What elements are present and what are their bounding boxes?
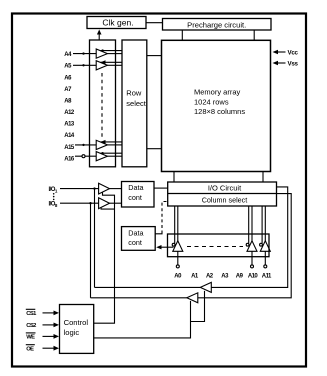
wire CS2 arrow <box>43 324 56 326</box>
read path I/O8 vertical <box>90 203 92 298</box>
svg-text:A16: A16 <box>64 157 75 163</box>
buffer A10 <box>247 241 257 252</box>
column address buffer box <box>168 234 270 257</box>
svg-text:Data: Data <box>128 229 143 238</box>
svg-text:I/O Circuit: I/O Circuit <box>208 184 242 193</box>
buffer A0 <box>173 241 183 252</box>
svg-text:cont: cont <box>128 238 142 247</box>
svg-text:Clk gen.: Clk gen. <box>102 18 133 28</box>
svg-text:select: select <box>126 99 147 108</box>
svg-text:CS2: CS2 <box>26 323 36 329</box>
buffer A5 <box>96 61 107 70</box>
row select box <box>122 40 147 167</box>
svg-text:OE: OE <box>26 347 34 353</box>
svg-text:Vss: Vss <box>288 60 299 67</box>
wire precharge to memory right <box>253 30 255 40</box>
wire A4 input <box>73 53 96 55</box>
dashed line hidden row buffers <box>101 73 103 138</box>
row address buffer box <box>90 40 116 167</box>
Vcc supply arrow <box>275 51 286 53</box>
svg-text:cont: cont <box>128 193 142 202</box>
wire I/O1 input <box>60 188 99 190</box>
output buffer B2 <box>91 297 187 299</box>
svg-text:CS1: CS1 <box>26 311 37 317</box>
svg-text:A12: A12 <box>64 110 75 116</box>
precharge circuit box U2 <box>163 19 272 31</box>
svg-text:I/O8: I/O8 <box>49 202 58 209</box>
svg-text:Vcc: Vcc <box>288 49 299 56</box>
wire WE arrow <box>43 335 56 337</box>
svg-text:1024 rows: 1024 rows <box>194 97 229 106</box>
wire CS1 arrow <box>43 312 56 314</box>
svg-text:Column select: Column select <box>202 196 248 205</box>
data control box 2 <box>122 227 156 251</box>
clock generator box U1 <box>87 17 146 29</box>
wire A5 input <box>73 64 96 66</box>
wire data cont to I/O circuit <box>154 187 168 189</box>
dashed connector column select to data cont 2 <box>162 202 167 231</box>
svg-text:A10: A10 <box>248 274 259 280</box>
input buffer I/O8 <box>99 198 110 209</box>
read path I/O1 vertical <box>94 189 96 288</box>
buffer A16 <box>96 152 107 161</box>
wire precharge to memory left <box>181 30 183 40</box>
svg-text:Row: Row <box>126 88 142 97</box>
svg-text:A15: A15 <box>64 145 75 151</box>
output enable path from control logic <box>94 301 191 338</box>
data control box 1 <box>122 182 155 208</box>
input buffer I/O1 <box>99 183 110 194</box>
control logic box <box>60 305 94 354</box>
wire memory to I/O circuit right <box>262 172 264 183</box>
dashed line hidden column buffers <box>187 246 243 248</box>
wire memory to I/O circuit left <box>173 172 175 183</box>
wire row select to memory array upper <box>147 55 162 57</box>
wire I/O8 input <box>60 202 99 204</box>
wire clk gen to precharge <box>146 22 163 24</box>
svg-text:I/O1: I/O1 <box>49 187 58 194</box>
svg-text:Data: Data <box>128 183 143 192</box>
buffer A4 <box>96 49 107 58</box>
wire A16 input <box>75 155 96 157</box>
write enable path from control logic <box>94 193 115 324</box>
wire A15 input <box>75 144 96 146</box>
svg-text:A11: A11 <box>262 274 272 280</box>
Vss supply arrow <box>275 62 286 64</box>
memory array box <box>162 40 271 171</box>
buffer A11 <box>260 241 270 252</box>
wire OE arrow <box>43 347 56 349</box>
svg-text:A14: A14 <box>64 133 75 139</box>
arrow column buffer to data cont 2 <box>159 246 174 248</box>
svg-text:128×8 columns: 128×8 columns <box>194 107 245 116</box>
svg-text:WE: WE <box>26 335 35 341</box>
svg-text:logic: logic <box>64 328 80 337</box>
svg-text:Control: Control <box>64 318 89 327</box>
arrow wire buffer box to clk gen <box>98 34 100 41</box>
dotted between I/O labels <box>53 193 55 195</box>
svg-text:A13: A13 <box>64 122 75 128</box>
I/O circuit and column select box <box>168 182 277 206</box>
svg-text:Memory array: Memory array <box>194 88 241 97</box>
buffer A15 <box>96 140 107 149</box>
output buffer B1 <box>95 286 201 288</box>
wire row select to memory array lower <box>147 148 162 150</box>
svg-text:Precharge circuit.: Precharge circuit. <box>187 20 246 29</box>
